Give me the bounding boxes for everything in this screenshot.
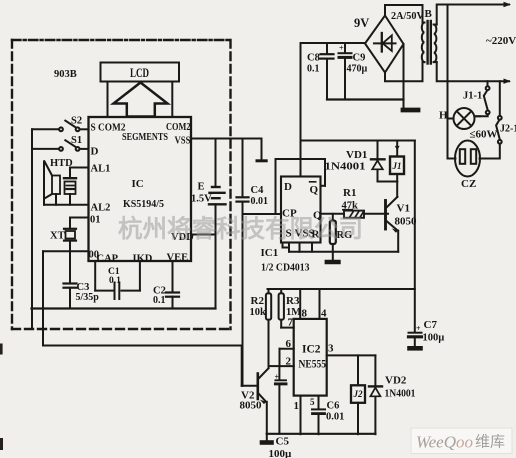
- svg-text:R3: R3: [286, 295, 300, 307]
- svg-text:+: +: [339, 44, 344, 53]
- svg-text:SEGMENTS: SEGMENTS: [122, 132, 168, 143]
- svg-text:~220V: ~220V: [486, 35, 516, 47]
- svg-text:AL2: AL2: [91, 203, 111, 214]
- svg-text:J1: J1: [392, 161, 402, 171]
- svg-text:6: 6: [286, 338, 292, 350]
- svg-text:VEE: VEE: [167, 253, 189, 264]
- svg-text:C4: C4: [251, 185, 265, 196]
- svg-text:J1-1: J1-1: [463, 91, 482, 102]
- svg-text:01: 01: [90, 215, 101, 226]
- svg-text:5: 5: [310, 397, 315, 407]
- svg-text:D: D: [91, 146, 99, 158]
- svg-text:WeeQoo: WeeQoo: [416, 433, 473, 452]
- svg-text:R2: R2: [251, 295, 265, 307]
- svg-text:杭州将睿科技有限公司: 杭州将睿科技有限公司: [118, 214, 363, 243]
- svg-text:D: D: [284, 181, 292, 193]
- svg-text:CAP: CAP: [97, 254, 119, 265]
- svg-text:C8: C8: [307, 53, 320, 64]
- svg-text:≤60W: ≤60W: [470, 129, 498, 141]
- svg-text:100µ: 100µ: [423, 333, 445, 344]
- svg-text:1N4001: 1N4001: [325, 162, 366, 173]
- svg-text:CZ: CZ: [461, 178, 476, 190]
- svg-text:AL1: AL1: [91, 164, 111, 175]
- svg-text:KS5194/5: KS5194/5: [123, 198, 164, 210]
- svg-text:S1: S1: [71, 135, 82, 146]
- svg-text:10k: 10k: [250, 307, 267, 318]
- svg-text:+: +: [416, 324, 421, 333]
- svg-text:47k: 47k: [342, 201, 359, 212]
- svg-text:4: 4: [321, 308, 327, 320]
- svg-text:8050: 8050: [240, 400, 263, 412]
- svg-text:1N4001: 1N4001: [385, 389, 416, 400]
- svg-text:IKD: IKD: [133, 254, 153, 265]
- svg-text:0.1: 0.1: [109, 276, 121, 286]
- svg-text:C6: C6: [327, 401, 340, 412]
- svg-text:0.01: 0.01: [251, 196, 269, 207]
- svg-text:9V: 9V: [354, 16, 369, 30]
- svg-text:V1: V1: [397, 203, 410, 215]
- svg-text:IC1: IC1: [261, 247, 279, 259]
- svg-text:R1: R1: [343, 187, 356, 199]
- svg-text:3: 3: [328, 343, 334, 355]
- svg-text:C7: C7: [424, 319, 438, 331]
- svg-text:维库: 维库: [475, 434, 505, 451]
- svg-text:IC2: IC2: [302, 344, 321, 356]
- svg-text:C9: C9: [353, 53, 366, 64]
- svg-text:COM2: COM2: [166, 122, 191, 133]
- svg-text:1.5V: 1.5V: [191, 194, 212, 205]
- svg-text:B: B: [425, 8, 433, 20]
- svg-text:5/35p: 5/35p: [76, 292, 100, 303]
- svg-text:IC: IC: [132, 178, 144, 190]
- svg-text:VD1: VD1: [346, 149, 367, 161]
- svg-text:S COM2: S COM2: [91, 123, 126, 134]
- svg-text:8: 8: [302, 308, 308, 320]
- svg-text:100µ: 100µ: [269, 448, 293, 458]
- svg-text:903B: 903B: [54, 69, 77, 80]
- svg-text:H: H: [439, 110, 448, 122]
- svg-text:1/2 CD4013: 1/2 CD4013: [261, 262, 310, 274]
- svg-text:J2-1: J2-1: [500, 124, 516, 135]
- svg-text:2A/50V: 2A/50V: [391, 11, 424, 22]
- svg-text:0.1: 0.1: [307, 64, 320, 75]
- svg-text:C5: C5: [276, 436, 290, 448]
- svg-text:470µ: 470µ: [347, 64, 368, 75]
- svg-text:NE555: NE555: [299, 359, 327, 371]
- svg-text:S2: S2: [71, 116, 82, 127]
- svg-text:LCD: LCD: [130, 66, 149, 80]
- svg-text:0.1: 0.1: [153, 295, 166, 306]
- svg-text:7: 7: [288, 317, 294, 329]
- svg-text:0.01: 0.01: [326, 412, 344, 423]
- svg-text:Q: Q: [310, 184, 319, 196]
- svg-text:VD2: VD2: [385, 375, 407, 387]
- svg-text:2: 2: [286, 356, 292, 368]
- svg-text:VSS: VSS: [175, 136, 191, 147]
- svg-text:J2: J2: [353, 389, 364, 399]
- svg-text:+: +: [275, 373, 280, 382]
- svg-text:8050: 8050: [395, 216, 418, 228]
- svg-text:1: 1: [294, 400, 300, 412]
- svg-text:E: E: [198, 182, 205, 193]
- svg-text:HTD: HTD: [50, 158, 73, 169]
- svg-text:XT: XT: [50, 231, 65, 242]
